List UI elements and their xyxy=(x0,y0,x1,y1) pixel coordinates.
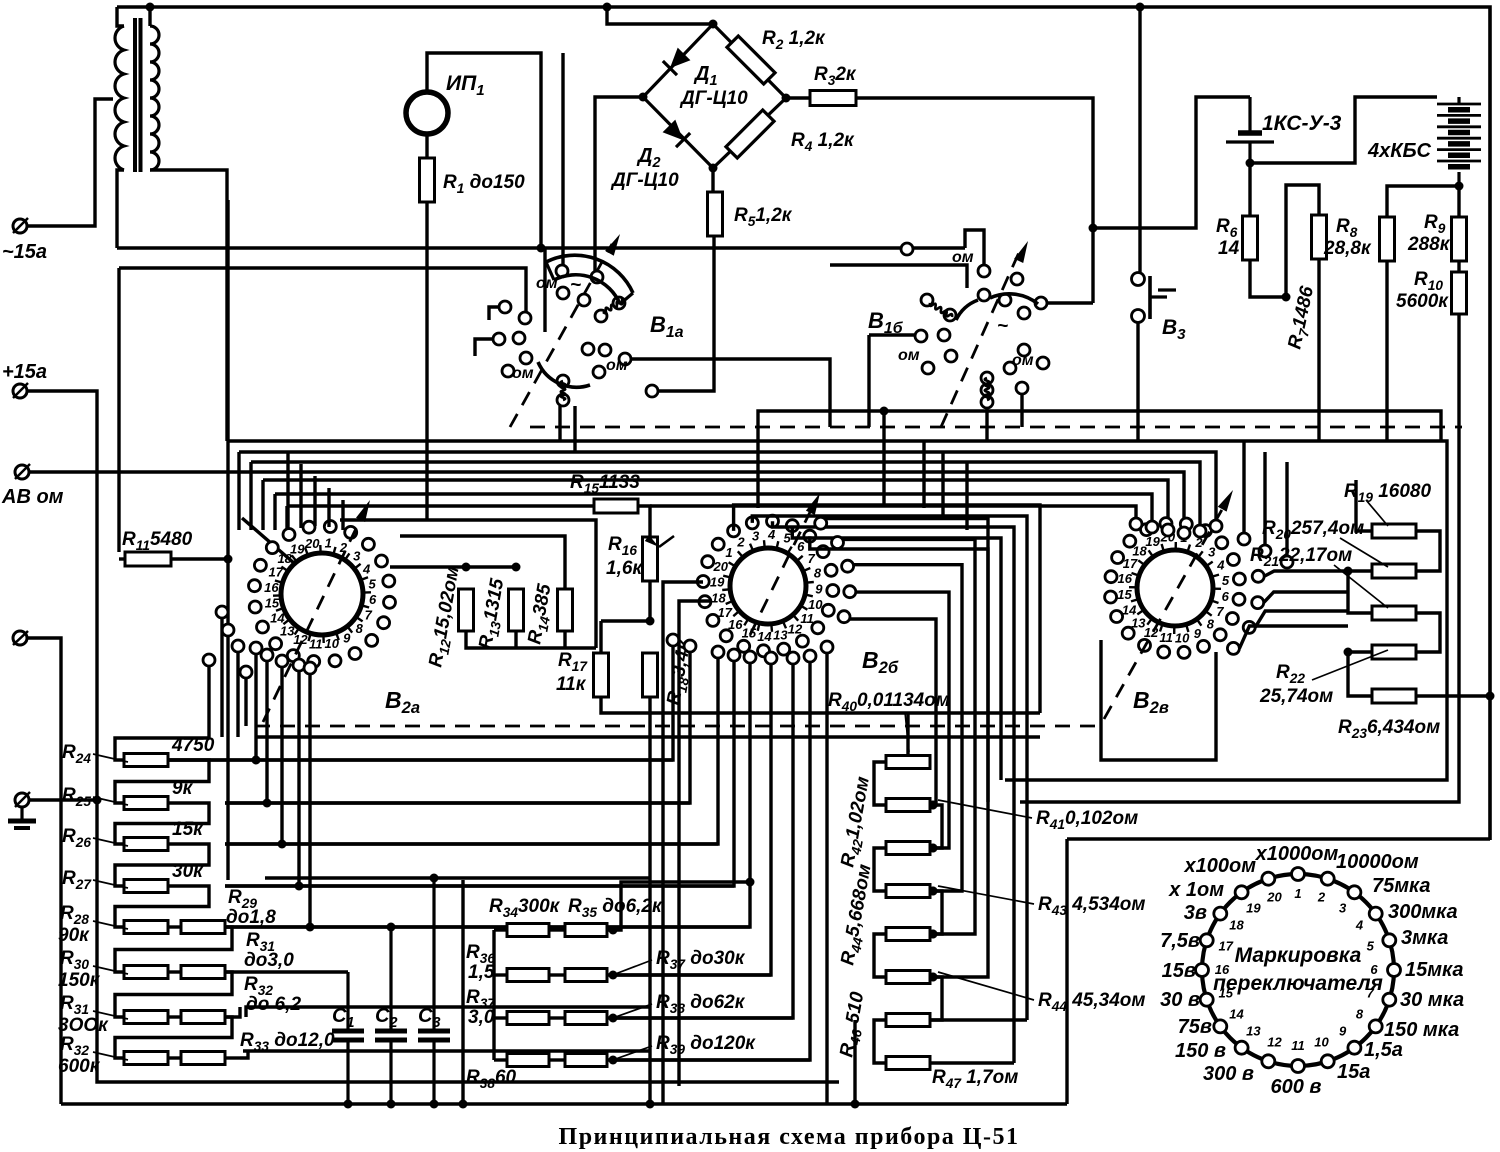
switch B2a outer contact xyxy=(222,624,234,636)
resistor R5 xyxy=(708,192,723,236)
svg-text:х 1ом: х 1ом xyxy=(1168,879,1224,901)
wire staircase y1051 xyxy=(243,1049,650,1052)
switch B2b outer contact c2c xyxy=(821,641,833,653)
switch B1b arrow xyxy=(1014,241,1028,263)
border frame top and right xyxy=(117,7,1490,840)
svg-text:8: 8 xyxy=(356,621,364,636)
switch B1b contacts xyxy=(901,243,1049,408)
dial contacts and numbers xyxy=(1196,868,1401,1073)
resistor R27 xyxy=(124,880,168,893)
wire R32 bottom xyxy=(225,1056,240,1059)
wire bus y248 from transformer across B1a xyxy=(117,246,965,249)
node terminal5 rail xyxy=(93,796,102,805)
svg-text:R115480: R115480 xyxy=(122,529,193,553)
resistor R18 xyxy=(643,653,658,697)
wire long vertical x228 xyxy=(226,200,229,880)
svg-text:3,0: 3,0 xyxy=(468,1007,495,1028)
pointer R19 xyxy=(1366,500,1388,526)
wire R8 top xyxy=(1387,186,1459,217)
svg-text:13: 13 xyxy=(1131,615,1146,630)
wire B1a lower right contact xyxy=(631,359,830,427)
wire B1a left contacts xyxy=(489,307,499,320)
resistor R43 xyxy=(886,885,930,898)
wire B1a contacts down xyxy=(558,406,561,441)
wire bus y268 xyxy=(117,268,120,552)
svg-text:150к: 150к xyxy=(58,970,101,991)
wire R24 left top bracket xyxy=(115,738,209,760)
resistor R34 block row2 b xyxy=(565,969,607,982)
pointer R30 xyxy=(93,966,128,974)
switch B2a dashed axis xyxy=(263,512,364,722)
resistor R42 xyxy=(886,842,930,855)
wire R26 series bracket xyxy=(115,844,209,886)
wire B2a top pin feed 3 xyxy=(313,476,316,526)
resistor R34 block row4 b xyxy=(565,1054,607,1067)
resistor R34 block row1 a xyxy=(507,924,549,937)
svg-text:11: 11 xyxy=(800,611,814,626)
transformer Tr1 xyxy=(115,18,159,172)
switch B2b outer contact c2-3 xyxy=(728,649,740,661)
svg-text:12: 12 xyxy=(788,621,803,636)
svg-text:90к: 90к xyxy=(58,925,90,946)
wire terminal ~15a to transformer xyxy=(27,99,113,226)
svg-text:3: 3 xyxy=(1339,901,1347,916)
svg-text:17: 17 xyxy=(718,605,733,620)
switch B2v outer contact xyxy=(1146,521,1158,533)
wire transformer secondary top to border xyxy=(148,7,151,26)
svg-text:10000ом: 10000ом xyxy=(1336,851,1419,873)
resistor R12 xyxy=(459,589,474,631)
svg-text:R32к: R32к xyxy=(814,64,857,88)
svg-text:~: ~ xyxy=(570,275,581,296)
wire R24 right stub xyxy=(168,758,209,761)
wire B2a extra down a xyxy=(220,618,223,737)
svg-text:300мка: 300мка xyxy=(1388,901,1458,923)
wire R11 left xyxy=(119,557,125,560)
wire B2v upper right feed c xyxy=(1285,462,1288,556)
svg-text:16: 16 xyxy=(264,580,279,595)
resistor R10 xyxy=(1452,272,1467,314)
wire B2a comb1 4 xyxy=(297,671,300,886)
switch B2b outer contact c2-0 xyxy=(667,634,679,646)
switch B1a upper fan xyxy=(546,255,633,293)
pointer R32 xyxy=(93,1052,128,1060)
node ladder tap 1 xyxy=(929,801,938,810)
wire B1b box outline xyxy=(830,265,967,288)
node comb1 1 xyxy=(252,756,261,765)
switch B2v outer contact c xyxy=(1281,556,1293,568)
svg-text:7: 7 xyxy=(808,551,816,566)
node bridge top xyxy=(709,20,718,29)
resistor R8 xyxy=(1380,217,1395,261)
wire B2a comb1 0 xyxy=(207,666,210,738)
wire y452 drop x943 xyxy=(941,452,944,519)
switch B2b outer contact c2-2 xyxy=(712,646,724,658)
svg-text:11к: 11к xyxy=(556,674,587,695)
mechanical dashed line lower xyxy=(255,725,1095,728)
svg-text:R34300к: R34300к xyxy=(489,896,561,920)
node B2b tap row 9 xyxy=(929,801,938,810)
switch B1b spring b xyxy=(985,378,990,400)
terminal ~15a xyxy=(13,218,28,233)
wire R30 mid xyxy=(168,970,181,973)
wire B2b right pin 5 xyxy=(825,519,988,977)
wire R31 mid xyxy=(168,1015,181,1018)
wire B2a top pin feed 2 xyxy=(299,464,302,528)
switch B2a outer contact c1-2 xyxy=(261,649,273,661)
svg-text:3мка: 3мка xyxy=(1401,927,1448,949)
node bridge bottom xyxy=(709,164,718,173)
wire R17 R18 top bar xyxy=(601,619,650,622)
wire B2b right pin 7 xyxy=(853,565,962,891)
wire row2 tap xyxy=(225,801,690,804)
svg-text:14: 14 xyxy=(1229,1007,1244,1022)
switch B2a outer contact c1-1 xyxy=(250,642,262,654)
switch B2v arrow xyxy=(1218,490,1233,512)
wire R30 series bracket xyxy=(115,972,232,1017)
svg-text:12: 12 xyxy=(1267,1034,1282,1049)
switch B2b outer contact c2b-0 xyxy=(765,652,777,664)
resistor R19 xyxy=(1372,524,1416,538)
wire row8 tap xyxy=(240,1051,248,1058)
wire R27 series bracket xyxy=(115,886,209,927)
svg-text:17: 17 xyxy=(1218,939,1233,954)
node top junction x607 xyxy=(603,3,612,12)
wire bus y462 xyxy=(249,462,252,530)
switch B2v cell outline xyxy=(1101,640,1216,760)
diode D2 xyxy=(662,119,690,147)
wire row1 right up xyxy=(607,882,750,930)
switch B2v outer contact 8 xyxy=(1227,642,1239,654)
wire transformer primary bottom to y248 bus xyxy=(117,170,124,248)
wire ladder left conn 4 xyxy=(874,934,886,977)
wire bottom bus xyxy=(61,1102,1067,1105)
resistor R1 xyxy=(420,158,435,202)
wire R23 out right xyxy=(1417,694,1490,697)
node ladder tap 4 xyxy=(929,930,938,939)
wire row2 mid xyxy=(549,973,565,976)
svg-text:3: 3 xyxy=(353,549,361,564)
pointer R26 xyxy=(93,838,128,846)
svg-text:3: 3 xyxy=(1208,545,1216,560)
svg-text:18: 18 xyxy=(711,590,726,605)
resistor R4 xyxy=(726,110,774,158)
wire B2a comb1 5 xyxy=(308,674,311,927)
wire B2a comb1 3 xyxy=(280,667,283,844)
wire B1b contact right feed xyxy=(1048,301,1093,304)
switch B2b outer contact c2-4 xyxy=(744,651,756,663)
svg-text:30 мка: 30 мка xyxy=(1400,989,1464,1011)
node bridge right xyxy=(782,94,791,103)
svg-text:19: 19 xyxy=(290,541,305,556)
svg-text:9: 9 xyxy=(1194,626,1202,641)
wire B2b comb2 2 xyxy=(225,658,718,844)
svg-text:6: 6 xyxy=(369,592,377,607)
svg-text:ом: ом xyxy=(1012,352,1034,369)
node comb1 2 xyxy=(263,799,272,808)
capacitor C3 xyxy=(418,878,450,1109)
svg-text:R51,2к: R51,2к xyxy=(734,205,793,229)
wire R28 mid xyxy=(168,925,181,928)
svg-text:15а: 15а xyxy=(1337,1061,1370,1083)
svg-text:19: 19 xyxy=(1145,534,1160,549)
wire GB1 to R6 xyxy=(1248,163,1251,216)
wire AV om bus y472 xyxy=(29,472,1184,540)
wire R21-R22 right xyxy=(1417,613,1440,652)
svg-text:АВ ом: АВ ом xyxy=(1,486,64,508)
svg-text:75в: 75в xyxy=(1178,1016,1212,1038)
wire B2a extra down c xyxy=(244,678,247,726)
pointer R25 xyxy=(93,797,128,805)
wire R19-R20 right xyxy=(1417,531,1440,571)
wire rail x855 xyxy=(853,1020,856,1104)
wire row4 mid xyxy=(549,1058,565,1061)
switch B1a arrow xyxy=(605,234,620,256)
wire bus y506 right xyxy=(650,506,1136,531)
pointer R41 xyxy=(938,800,1032,818)
wire ladder right conn 3 xyxy=(930,891,942,934)
wire B2b comb2 last xyxy=(825,653,828,1104)
svg-text:2: 2 xyxy=(1317,890,1326,905)
resistor R14 xyxy=(558,589,573,631)
resistor R7 xyxy=(1312,215,1327,259)
svg-text:150 в: 150 в xyxy=(1175,1040,1226,1062)
switch B1a contacts xyxy=(493,265,658,406)
switch B2v outer contact xyxy=(1178,527,1190,539)
node GB1 bottom xyxy=(1246,159,1255,168)
svg-text:5: 5 xyxy=(1367,939,1375,954)
resistor R26 xyxy=(124,838,168,851)
svg-text:~15а: ~15а xyxy=(2,241,47,263)
node B2b tap row 7 xyxy=(929,887,938,896)
svg-text:х1000ом: х1000ом xyxy=(1255,843,1339,865)
wire x1140 from border to B3 xyxy=(1138,7,1141,272)
svg-text:9: 9 xyxy=(815,582,823,597)
wire B1b top contact up xyxy=(965,230,984,264)
wire row5 tap xyxy=(225,925,750,928)
wire C1 top link xyxy=(225,970,348,973)
switch B2a outer contact c1-3 xyxy=(276,655,288,667)
switch B2v outer contact a xyxy=(1238,533,1250,545)
wire R6 bottom to R7 hairpin xyxy=(1250,260,1286,297)
wire rail x463 xyxy=(461,880,464,1104)
wire bus y506 left xyxy=(285,506,288,530)
svg-text:до 6,2: до 6,2 xyxy=(246,994,301,1015)
wire bridge bottom to R5 xyxy=(711,168,714,192)
wire R12 bottom xyxy=(466,631,596,648)
resistor R46 xyxy=(886,1014,930,1027)
resistor R44 xyxy=(886,971,930,984)
wire B2b comb2b 2 xyxy=(613,662,810,1060)
wire R9 to R10 xyxy=(1457,186,1460,217)
svg-text:9: 9 xyxy=(343,631,351,646)
battery GB1 1KC-U-3 xyxy=(1226,97,1274,163)
switch B1b arcs xyxy=(956,300,978,320)
wire B2a comb1 2 xyxy=(265,661,268,803)
wire ladder row7 tap xyxy=(930,1018,1027,1021)
svg-text:7,5в: 7,5в xyxy=(1160,930,1200,952)
switch B3 xyxy=(1132,273,1177,323)
wire GB1 junction to x1355 up xyxy=(1250,97,1437,163)
node R11 right xyxy=(224,555,233,564)
wire terminal4 down left rail x61 xyxy=(27,638,61,1104)
svg-text:13: 13 xyxy=(773,627,788,642)
pointer R38 xyxy=(610,1004,652,1019)
svg-text:4хКБС: 4хКБС xyxy=(1367,140,1431,162)
switch B2v outer contact xyxy=(1194,525,1206,537)
resistor R24 xyxy=(124,754,168,767)
wire R5 down to B1a xyxy=(652,236,714,391)
wire B2b comb2 0 xyxy=(168,646,673,760)
wire R10 down to y802 xyxy=(1020,314,1459,802)
wire B2a cell top xyxy=(340,520,596,648)
resistor R41 xyxy=(886,799,930,812)
wire R34 row4 right xyxy=(607,1058,810,1061)
svg-text:25,74ом: 25,74ом xyxy=(1259,686,1333,707)
wire B3 down xyxy=(1136,322,1139,441)
svg-text:4: 4 xyxy=(767,527,776,542)
wire staircase y1007 xyxy=(246,1007,650,1017)
switch B2v dashed axis xyxy=(1104,506,1224,719)
node B2b tap row 6 xyxy=(929,930,938,939)
wire bridge top feed xyxy=(607,7,713,24)
switch B2a outer contact c1-4 xyxy=(293,659,305,671)
wire B2v pin 7 to chain xyxy=(1255,611,1348,627)
svg-text:20: 20 xyxy=(712,559,728,574)
switch B1a spring upper xyxy=(603,299,625,314)
wire y411 drop x884 xyxy=(882,411,885,505)
svg-text:R2 1,2к: R2 1,2к xyxy=(762,28,826,52)
switch B2b right outer contact 9 xyxy=(838,611,850,623)
wire row1 tap xyxy=(209,758,673,761)
svg-text:5: 5 xyxy=(1222,573,1230,588)
svg-text:150 мка: 150 мка xyxy=(1384,1019,1459,1041)
svg-text:R151133: R151133 xyxy=(570,472,640,496)
battery GB2 4xKBC xyxy=(1437,97,1481,186)
switch B2b outer contact c2b-2 xyxy=(804,650,816,662)
svg-text:20: 20 xyxy=(1266,890,1282,905)
switch B1a dashed axis xyxy=(510,244,612,427)
node ladder tap 2 xyxy=(929,844,938,853)
svg-text:1,5: 1,5 xyxy=(468,962,495,983)
wire ladder left conn 0 xyxy=(874,762,886,805)
svg-text:ДГ-Ц10: ДГ-Ц10 xyxy=(679,88,748,109)
svg-text:ом: ом xyxy=(606,357,628,374)
wire ladder row8 tap xyxy=(930,1061,1014,1064)
wire dial box xyxy=(1067,837,1490,840)
svg-text:20: 20 xyxy=(304,536,320,551)
resistor R20 xyxy=(1372,564,1416,578)
resistor R9 xyxy=(1452,217,1467,261)
switch B2a outer contact c1-5 xyxy=(304,662,316,674)
wire transformer primary top to border xyxy=(117,7,124,26)
node C2 link xyxy=(387,923,396,932)
svg-text:R4 1,2к: R4 1,2к xyxy=(791,130,855,154)
wire rail x650 xyxy=(648,713,651,1104)
switch B2b outer contact c2-1 xyxy=(684,640,696,652)
wire B2a to R12 R13 xyxy=(390,565,516,568)
wire C3 top link xyxy=(265,876,650,879)
node R16 bottom xyxy=(646,617,655,626)
node top junction x1140 xyxy=(1136,3,1145,12)
terminal 5 ground xyxy=(15,792,30,807)
wire B2v upper right feed b xyxy=(1263,452,1266,545)
wire B2b top nest 5 xyxy=(810,536,988,802)
pointer R24 xyxy=(93,754,128,762)
resistor R25 xyxy=(124,797,168,810)
wire B2b comb2b 0 xyxy=(613,664,771,975)
wire R16 bottom xyxy=(648,581,651,621)
resistor R3 xyxy=(810,91,856,106)
svg-text:~: ~ xyxy=(997,316,1008,337)
wire B2a top pin feed 5 xyxy=(341,500,344,530)
resistor R17 xyxy=(594,653,609,697)
resistor R11 xyxy=(125,552,171,566)
wire ladder left conn 6 xyxy=(874,1020,886,1063)
node B2b tap row 5 xyxy=(929,973,938,982)
switch B2v outer contact 6 xyxy=(1252,597,1264,609)
wire B2b right pin 6 xyxy=(843,539,975,934)
node x1093 y228 xyxy=(1089,224,1098,233)
wire R34 rail left xyxy=(492,930,495,1060)
resistor R31 xyxy=(124,1011,168,1024)
pointer R27 xyxy=(93,880,128,888)
wire B2b comb2 4 xyxy=(225,663,750,927)
wire B2b left pin 19 out xyxy=(663,582,703,1104)
wire funnel chamfer xyxy=(242,518,302,570)
dial circle xyxy=(1202,874,1394,1066)
wire B2v pin 8 to chain xyxy=(1239,626,1348,648)
switch B2a ring xyxy=(249,521,396,668)
svg-text:600к: 600к xyxy=(58,1056,101,1077)
ground xyxy=(8,807,36,828)
pointer R31 xyxy=(93,1011,128,1019)
wire R17 top xyxy=(599,621,602,652)
wire B2b top nest 3 xyxy=(773,521,1015,1063)
wire R14 bottom xyxy=(563,631,566,648)
node rail x650 xyxy=(646,1100,655,1109)
svg-text:переключателя: переключателя xyxy=(1213,972,1383,995)
resistor R30 xyxy=(124,966,168,979)
svg-text:4: 4 xyxy=(362,561,371,576)
svg-text:2: 2 xyxy=(736,535,745,550)
node ladder tap 5 xyxy=(929,973,938,982)
svg-text:15мка: 15мка xyxy=(1405,959,1464,981)
svg-text:до1,8: до1,8 xyxy=(226,907,276,928)
wire bus y494 xyxy=(273,494,276,530)
svg-text:1: 1 xyxy=(1294,886,1301,901)
svg-text:288к: 288к xyxy=(1407,234,1451,255)
svg-text:5: 5 xyxy=(783,531,791,546)
wire row1 mid xyxy=(549,928,565,931)
node chain j1 xyxy=(1344,567,1353,576)
resistor R34 block row2 a xyxy=(507,969,549,982)
node R12 top xyxy=(462,563,471,572)
wire R1 down xyxy=(425,202,428,521)
switch B2v outer contact b xyxy=(1259,545,1271,557)
wire ladder right conn 5 xyxy=(930,977,942,1020)
pointer R40 xyxy=(905,712,909,752)
wire R24 series bracket xyxy=(115,760,209,803)
svg-text:28,8к: 28,8к xyxy=(1323,238,1372,259)
switch B1a fan sides xyxy=(546,262,554,280)
wire R22-R23 left xyxy=(1348,652,1371,696)
resistor R40 xyxy=(886,756,930,769)
wire B2b top nest 2 xyxy=(752,516,1027,1020)
resistor R21 xyxy=(1372,606,1416,620)
svg-text:9к: 9к xyxy=(172,778,194,799)
switch B2v outer contact 5 xyxy=(1252,570,1264,582)
